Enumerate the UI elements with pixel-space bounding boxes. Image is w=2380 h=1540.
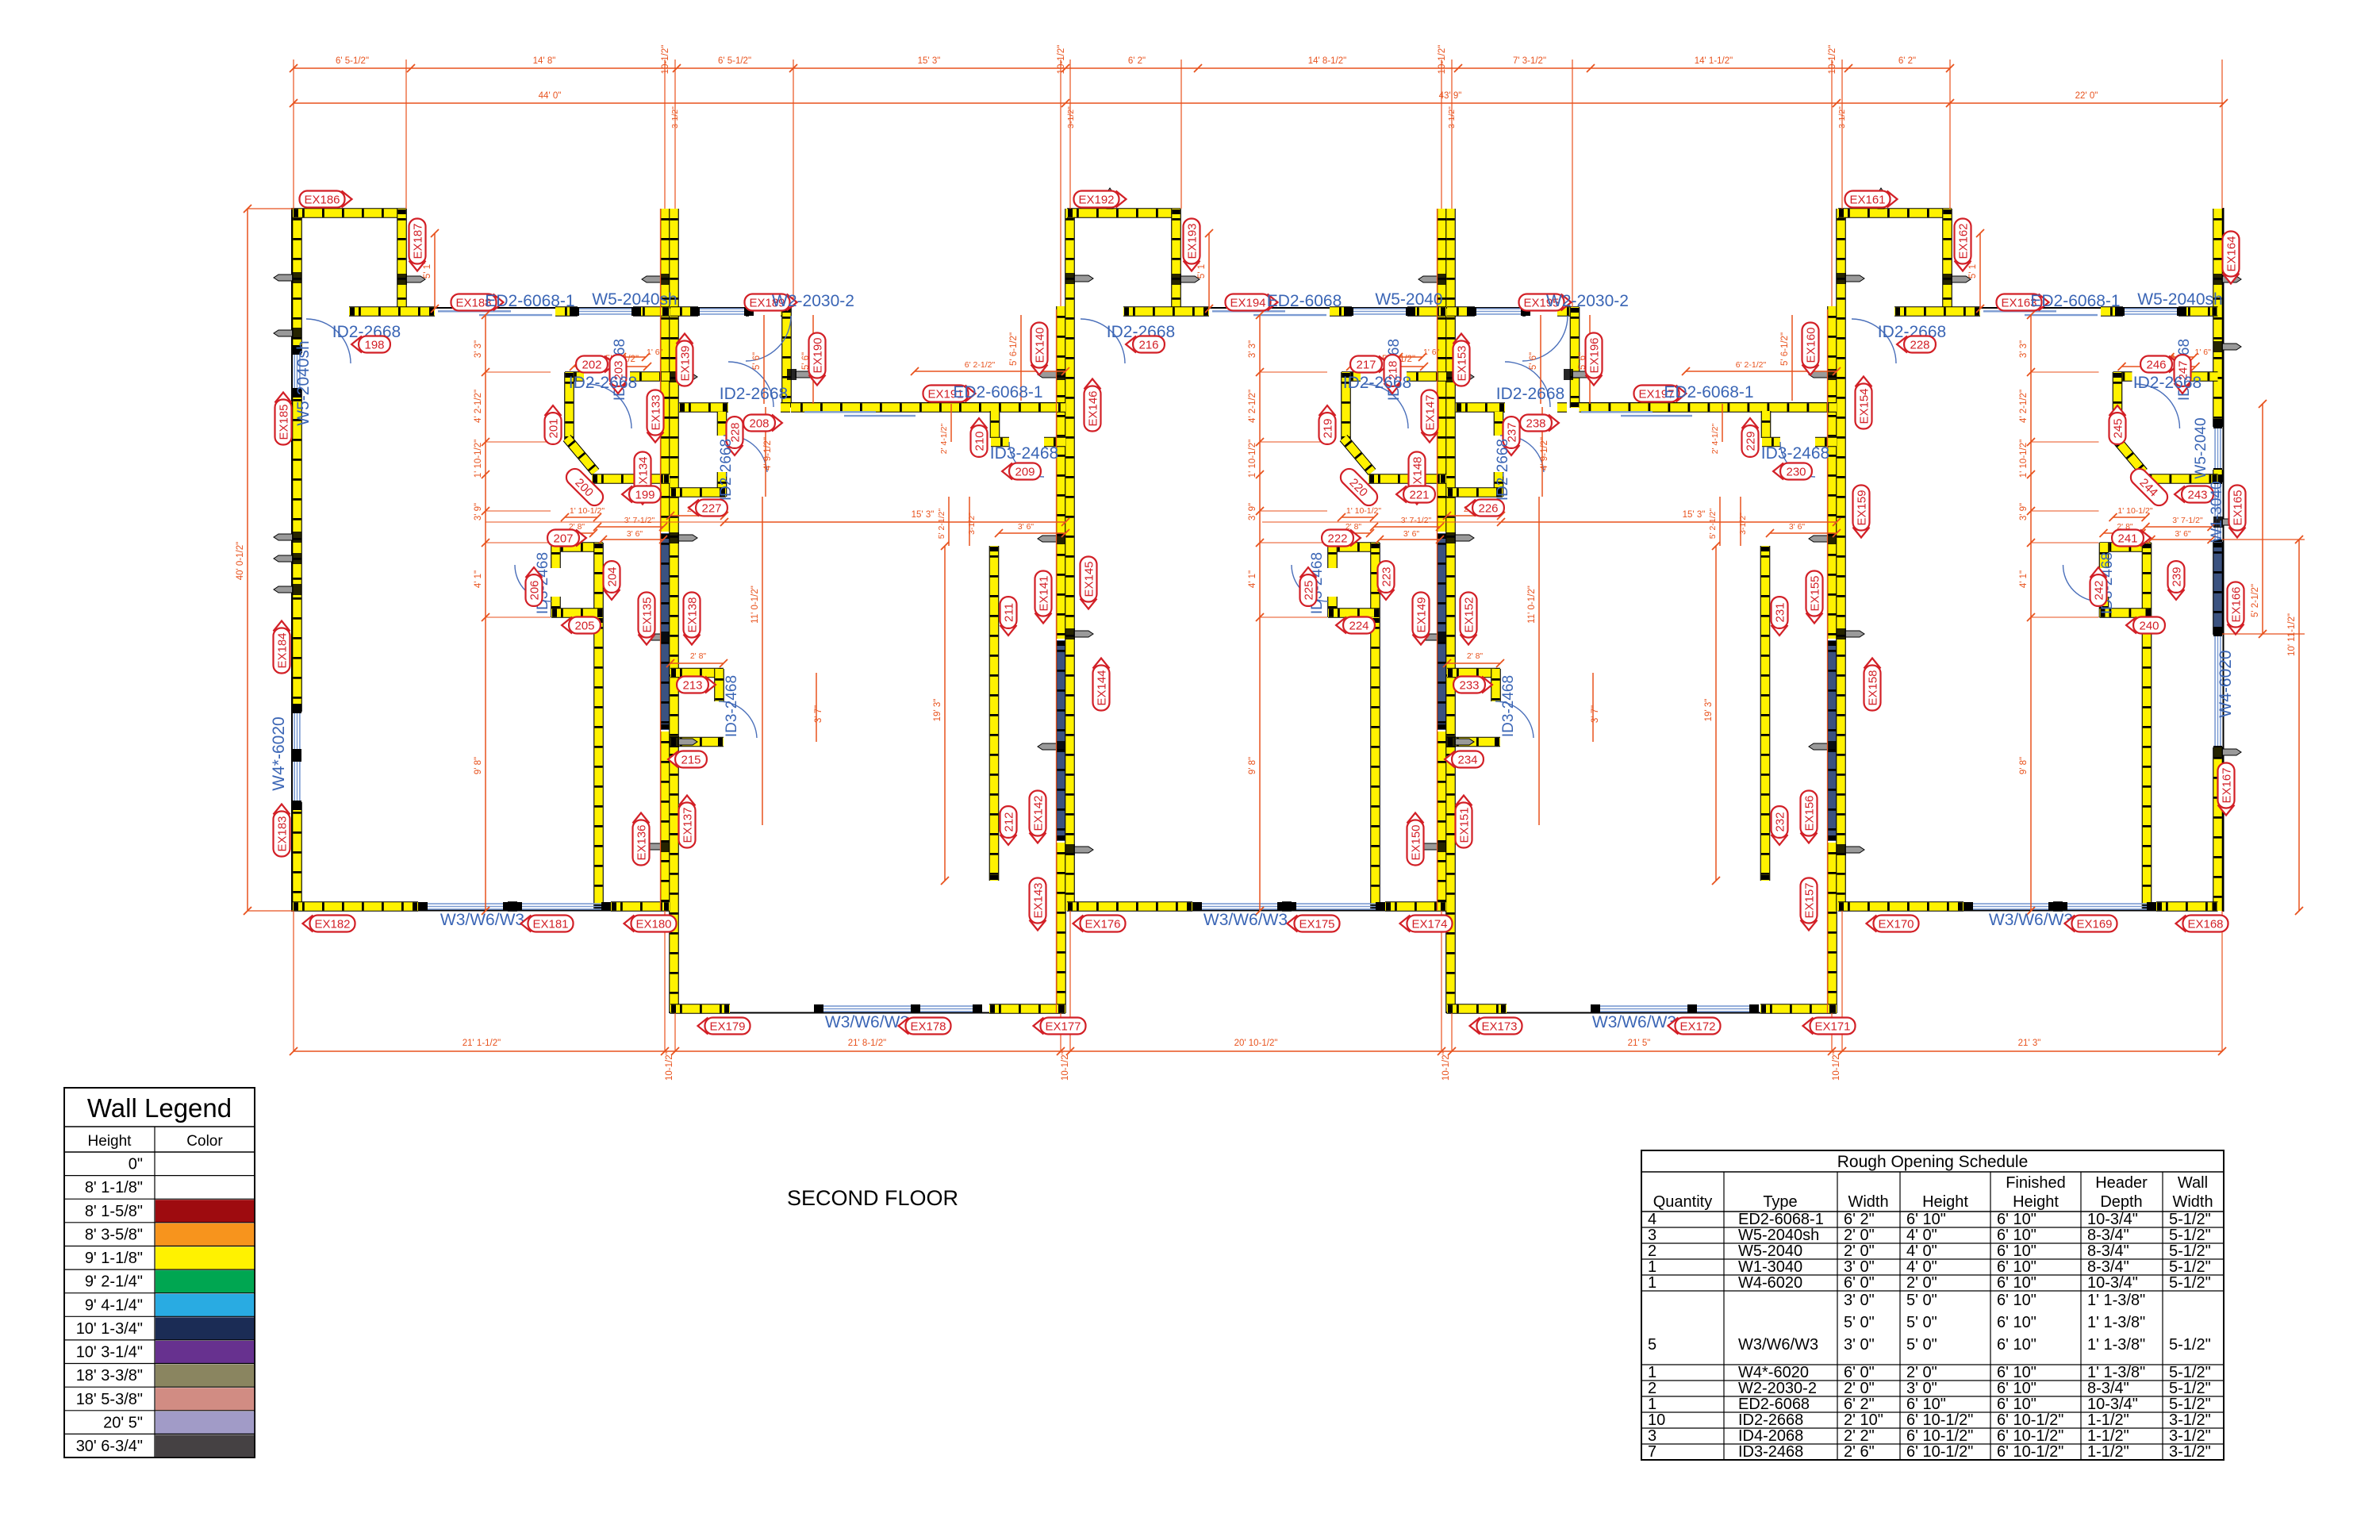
svg-text:EX160: EX160 bbox=[1805, 327, 1818, 363]
svg-text:Width: Width bbox=[2172, 1193, 2213, 1211]
bottom wall bbox=[293, 910, 670, 912]
svg-text:241: 241 bbox=[2117, 532, 2137, 546]
callouts strip3 bbox=[1074, 191, 1127, 208]
svg-text:198: 198 bbox=[364, 339, 384, 352]
svg-text:3' 6": 3' 6" bbox=[2175, 529, 2191, 539]
svg-text:9' 8": 9' 8" bbox=[1248, 757, 1257, 774]
svg-text:EX162: EX162 bbox=[1957, 223, 1971, 259]
svg-text:1' 10-1/2": 1' 10-1/2" bbox=[474, 440, 483, 478]
svg-text:1' 1-3/8": 1' 1-3/8" bbox=[2087, 1292, 2145, 1309]
svg-text:3-1/2": 3-1/2" bbox=[2169, 1443, 2211, 1461]
svg-text:6' 10": 6' 10" bbox=[1997, 1396, 2036, 1413]
svg-text:6' 10": 6' 10" bbox=[1997, 1227, 2036, 1244]
svg-text:10-1/2": 10-1/2" bbox=[1832, 1051, 1841, 1081]
svg-text:W4-6020: W4-6020 bbox=[1738, 1274, 1802, 1292]
Rough Opening Schedule table bbox=[1641, 1150, 2224, 1460]
svg-text:EX182: EX182 bbox=[314, 918, 350, 931]
svg-text:234: 234 bbox=[1457, 754, 1477, 767]
svg-text:243: 243 bbox=[2187, 489, 2207, 502]
svg-text:4' 1": 4' 1" bbox=[474, 570, 483, 588]
closet bbox=[1328, 542, 1380, 552]
svg-text:8' 3-5/8": 8' 3-5/8" bbox=[85, 1227, 143, 1244]
bottom callouts bbox=[303, 916, 355, 932]
svg-text:233: 233 bbox=[1459, 679, 1479, 693]
svg-text:EX187: EX187 bbox=[412, 223, 425, 259]
svg-text:EX155: EX155 bbox=[1809, 575, 1822, 611]
svg-text:246: 246 bbox=[2146, 359, 2166, 372]
svg-text:EX157: EX157 bbox=[1803, 882, 1817, 918]
svg-text:3-1/2": 3-1/2" bbox=[1738, 513, 1748, 535]
svg-text:Height: Height bbox=[2013, 1193, 2059, 1211]
svg-text:5' 0": 5' 0" bbox=[1906, 1314, 1937, 1331]
svg-text:1' 1-3/8": 1' 1-3/8" bbox=[2087, 1364, 2145, 1381]
svg-text:20' 5": 20' 5" bbox=[103, 1414, 143, 1431]
svg-text:40' 0-1/2": 40' 0-1/2" bbox=[236, 542, 245, 580]
svg-text:4' 2-1/2": 4' 2-1/2" bbox=[2019, 390, 2029, 423]
bathroom B bbox=[717, 412, 727, 436]
svg-text:238: 238 bbox=[1526, 417, 1545, 431]
svg-text:2' 8": 2' 8" bbox=[690, 651, 707, 661]
svg-text:5-1/2": 5-1/2" bbox=[2169, 1364, 2211, 1381]
bottom wall bbox=[1067, 910, 1446, 912]
callouts strip2 bbox=[677, 334, 693, 386]
svg-text:ID2-2668: ID2-2668 bbox=[2133, 374, 2201, 392]
svg-text:EX190: EX190 bbox=[812, 337, 825, 373]
svg-text:Wall Legend: Wall Legend bbox=[87, 1093, 232, 1123]
svg-text:226: 226 bbox=[1478, 502, 1498, 516]
svg-text:217: 217 bbox=[1356, 359, 1376, 372]
svg-text:3' 0": 3' 0" bbox=[1844, 1336, 1875, 1354]
svg-text:5-1/2": 5-1/2" bbox=[2169, 1396, 2211, 1413]
svg-text:ID2-2668: ID2-2668 bbox=[1495, 439, 1511, 501]
svg-text:6' 10": 6' 10" bbox=[1997, 1336, 2036, 1354]
svg-text:6' 10": 6' 10" bbox=[1997, 1314, 2036, 1331]
svg-text:21' 5": 21' 5" bbox=[1628, 1039, 1651, 1048]
svg-text:EX158: EX158 bbox=[1867, 670, 1880, 705]
svg-text:ID3-2468: ID3-2468 bbox=[1738, 1443, 1803, 1461]
left dimension bbox=[247, 209, 248, 911]
svg-text:6' 2": 6' 2" bbox=[1844, 1211, 1875, 1228]
svg-text:229: 229 bbox=[1745, 431, 1758, 451]
svg-text:3' 0": 3' 0" bbox=[1844, 1258, 1875, 1276]
right outer wall bbox=[2213, 209, 2223, 427]
svg-text:2' 0": 2' 0" bbox=[1906, 1364, 1937, 1381]
svg-text:ID3-2468: ID3-2468 bbox=[1500, 675, 1517, 737]
svg-text:6' 10-1/2": 6' 10-1/2" bbox=[1997, 1411, 2063, 1429]
svg-text:6' 10-1/2": 6' 10-1/2" bbox=[1906, 1443, 1973, 1461]
svg-text:219: 219 bbox=[1322, 418, 1335, 438]
svg-text:9' 8": 9' 8" bbox=[474, 757, 483, 774]
svg-text:Wall: Wall bbox=[2178, 1174, 2208, 1192]
small room bbox=[670, 668, 724, 678]
svg-text:2' 6": 2' 6" bbox=[1844, 1443, 1875, 1461]
svg-text:212: 212 bbox=[1003, 812, 1016, 831]
svg-text:8' 1-1/8": 8' 1-1/8" bbox=[85, 1179, 143, 1196]
svg-text:5-1/2": 5-1/2" bbox=[2169, 1336, 2211, 1354]
svg-text:EX169: EX169 bbox=[2076, 918, 2112, 931]
svg-text:21' 8-1/2": 21' 8-1/2" bbox=[848, 1039, 886, 1048]
svg-text:3' 0": 3' 0" bbox=[1844, 1292, 1875, 1309]
svg-text:204: 204 bbox=[606, 566, 620, 586]
svg-text:EX144: EX144 bbox=[1096, 670, 1109, 705]
svg-text:Height: Height bbox=[88, 1133, 132, 1150]
svg-text:EX147: EX147 bbox=[1424, 394, 1438, 430]
svg-text:6' 10-1/2": 6' 10-1/2" bbox=[1997, 1443, 2063, 1461]
party wall 4 bbox=[1827, 306, 1837, 639]
svg-text:221: 221 bbox=[1409, 489, 1429, 502]
long wall bbox=[593, 617, 604, 911]
svg-text:8-3/4": 8-3/4" bbox=[2087, 1227, 2129, 1244]
svg-text:8' 1-5/8": 8' 1-5/8" bbox=[85, 1203, 143, 1220]
svg-text:1' 6": 1' 6" bbox=[1423, 348, 1440, 357]
svg-text:6' 5-1/2": 6' 5-1/2" bbox=[718, 56, 751, 66]
svg-text:10-1/2": 10-1/2" bbox=[1438, 45, 1447, 75]
svg-text:W5-2040sh: W5-2040sh bbox=[592, 290, 677, 309]
svg-text:5-1/2": 5-1/2" bbox=[2169, 1258, 2211, 1276]
bathroom bbox=[1342, 371, 1361, 382]
svg-text:1: 1 bbox=[1648, 1396, 1656, 1413]
svg-text:EX173: EX173 bbox=[1481, 1020, 1517, 1034]
svg-text:210: 210 bbox=[973, 431, 987, 451]
svg-text:ED2-6068-1: ED2-6068-1 bbox=[1738, 1211, 1824, 1228]
svg-text:EX193: EX193 bbox=[1186, 223, 1200, 259]
svg-text:4' 0": 4' 0" bbox=[1906, 1227, 1937, 1244]
svg-text:2' 0": 2' 0" bbox=[1906, 1274, 1937, 1292]
svg-text:5' 6-1/2": 5' 6-1/2" bbox=[1009, 332, 1019, 366]
svg-text:11' 0-1/2": 11' 0-1/2" bbox=[750, 586, 760, 624]
svg-text:EX133: EX133 bbox=[650, 394, 663, 430]
svg-text:EX153: EX153 bbox=[1456, 345, 1469, 381]
svg-text:3' 6": 3' 6" bbox=[1789, 522, 1806, 532]
svg-text:1: 1 bbox=[1648, 1258, 1656, 1276]
outer building outline lines bbox=[291, 208, 293, 912]
long wall B bbox=[989, 546, 1000, 881]
svg-text:EX192: EX192 bbox=[1078, 194, 1114, 207]
svg-text:4' 1": 4' 1" bbox=[1248, 570, 1257, 588]
svg-text:ID3-2468: ID3-2468 bbox=[1761, 444, 1829, 463]
svg-text:3' 6": 3' 6" bbox=[1018, 522, 1035, 532]
svg-text:2' 10": 2' 10" bbox=[1844, 1411, 1883, 1429]
svg-text:EX166: EX166 bbox=[2230, 586, 2244, 622]
closet bbox=[551, 542, 603, 552]
svg-text:7' 3-1/2": 7' 3-1/2" bbox=[1513, 56, 1546, 66]
svg-text:6' 10": 6' 10" bbox=[1997, 1274, 2036, 1292]
svg-text:15' 3": 15' 3" bbox=[1683, 510, 1706, 520]
svg-text:18' 5-3/8": 18' 5-3/8" bbox=[76, 1391, 143, 1408]
svg-text:EX137: EX137 bbox=[681, 807, 695, 843]
svg-text:43' 9": 43' 9" bbox=[1439, 91, 1462, 101]
svg-text:22' 0": 22' 0" bbox=[2075, 91, 2098, 101]
svg-text:EX146: EX146 bbox=[1087, 390, 1100, 426]
svg-text:EX172: EX172 bbox=[1679, 1020, 1715, 1034]
svg-text:EX186: EX186 bbox=[304, 194, 340, 207]
svg-text:1-1/2": 1-1/2" bbox=[2087, 1443, 2129, 1461]
svg-text:EX154: EX154 bbox=[1858, 388, 1871, 424]
svg-text:211: 211 bbox=[1003, 603, 1016, 622]
svg-text:W5-2040: W5-2040 bbox=[1375, 290, 1442, 309]
svg-text:1' 10-1/2": 1' 10-1/2" bbox=[570, 506, 605, 516]
callouts strip4 bbox=[1453, 334, 1470, 386]
svg-text:EX168: EX168 bbox=[2187, 918, 2223, 931]
svg-text:10-1/2": 10-1/2" bbox=[1828, 45, 1837, 75]
bathroom bbox=[2113, 371, 2132, 382]
svg-text:10' 1-3/4": 10' 1-3/4" bbox=[76, 1320, 143, 1338]
svg-text:EX175: EX175 bbox=[1299, 918, 1334, 931]
svg-text:EX196: EX196 bbox=[1588, 337, 1602, 373]
top wall B bbox=[1446, 307, 1580, 309]
svg-text:10-1/2": 10-1/2" bbox=[665, 1051, 674, 1081]
svg-text:10-3/4": 10-3/4" bbox=[2087, 1274, 2138, 1292]
svg-text:6' 10": 6' 10" bbox=[1997, 1258, 2036, 1276]
small room bbox=[1447, 668, 1500, 678]
svg-text:EX142: EX142 bbox=[1032, 795, 1046, 831]
svg-text:1' 10-1/2": 1' 10-1/2" bbox=[1248, 440, 1257, 478]
header wall bbox=[1580, 402, 1837, 404]
svg-text:3' 9": 3' 9" bbox=[474, 503, 483, 520]
svg-text:EX151: EX151 bbox=[1458, 807, 1472, 843]
svg-text:ED2-6068-1: ED2-6068-1 bbox=[1664, 383, 1753, 401]
svg-text:EX150: EX150 bbox=[1410, 824, 1423, 860]
svg-text:W2-2030-2: W2-2030-2 bbox=[772, 292, 854, 310]
svg-text:EX161: EX161 bbox=[1849, 194, 1885, 207]
svg-text:ID4-2068: ID4-2068 bbox=[1738, 1427, 1803, 1445]
svg-text:4' 9-1/2": 4' 9-1/2" bbox=[763, 437, 773, 470]
svg-text:W5-2040sh: W5-2040sh bbox=[1738, 1227, 1819, 1244]
svg-text:EX194: EX194 bbox=[1230, 297, 1265, 310]
svg-text:W3/W6/W3: W3/W6/W3 bbox=[1203, 911, 1288, 929]
svg-text:10-1/2": 10-1/2" bbox=[1441, 1051, 1451, 1081]
header wall bbox=[791, 402, 1065, 404]
svg-text:6' 2-1/2": 6' 2-1/2" bbox=[1736, 360, 1767, 370]
right dims bbox=[2262, 404, 2263, 634]
svg-text:18' 3-3/8": 18' 3-3/8" bbox=[76, 1367, 143, 1384]
svg-text:3' 7-1/2": 3' 7-1/2" bbox=[2172, 516, 2203, 525]
svg-text:ED2-6068-1: ED2-6068-1 bbox=[485, 292, 574, 310]
svg-text:EX184: EX184 bbox=[276, 632, 290, 668]
svg-text:6' 2": 6' 2" bbox=[1898, 56, 1916, 66]
svg-text:EX139: EX139 bbox=[679, 345, 693, 381]
svg-text:3' 3": 3' 3" bbox=[474, 340, 483, 358]
svg-text:21' 3": 21' 3" bbox=[2018, 1039, 2041, 1048]
long wall B bbox=[1760, 546, 1771, 881]
svg-text:19' 3": 19' 3" bbox=[1704, 699, 1714, 722]
svg-text:1' 1-3/8": 1' 1-3/8" bbox=[2087, 1314, 2145, 1331]
svg-text:EX143: EX143 bbox=[1032, 882, 1046, 918]
svg-text:2' 0": 2' 0" bbox=[1844, 1242, 1875, 1260]
svg-text:ED2-6068-1: ED2-6068-1 bbox=[2030, 292, 2120, 310]
svg-text:5' 2-1/2": 5' 2-1/2" bbox=[937, 509, 946, 540]
svg-text:3' 3": 3' 3" bbox=[2019, 340, 2029, 358]
svg-text:W5-2040sh: W5-2040sh bbox=[2137, 290, 2222, 309]
svg-text:1' 10-1/2": 1' 10-1/2" bbox=[2019, 440, 2029, 478]
svg-text:5-1/2": 5-1/2" bbox=[2169, 1274, 2211, 1292]
svg-text:3: 3 bbox=[1648, 1227, 1656, 1244]
svg-text:10-1/2": 10-1/2" bbox=[661, 45, 670, 75]
svg-text:EX171: EX171 bbox=[1814, 1020, 1850, 1034]
svg-text:1' 10-1/2": 1' 10-1/2" bbox=[1346, 506, 1382, 516]
svg-text:3' 9": 3' 9" bbox=[2019, 503, 2029, 520]
svg-text:W3/W6/W3: W3/W6/W3 bbox=[440, 911, 524, 929]
svg-text:30' 6-3/4": 30' 6-3/4" bbox=[76, 1438, 143, 1455]
svg-text:10' 11-1/2": 10' 11-1/2" bbox=[2287, 613, 2297, 656]
svg-text:2: 2 bbox=[1648, 1242, 1656, 1260]
svg-text:1-1/2": 1-1/2" bbox=[2087, 1411, 2129, 1429]
svg-text:4' 2-1/2": 4' 2-1/2" bbox=[474, 390, 483, 423]
svg-text:10-1/2": 10-1/2" bbox=[1057, 45, 1066, 75]
svg-text:EX156: EX156 bbox=[1803, 795, 1817, 831]
svg-text:EX145: EX145 bbox=[1083, 561, 1096, 597]
svg-text:3' 0": 3' 0" bbox=[1906, 1380, 1937, 1397]
closet bbox=[2100, 542, 2152, 552]
svg-text:ID2-2668: ID2-2668 bbox=[1343, 374, 1411, 392]
svg-text:3' 7": 3' 7" bbox=[1591, 705, 1600, 723]
svg-text:Height: Height bbox=[1922, 1193, 1968, 1211]
top dimension lines bbox=[294, 67, 1950, 69]
svg-text:10-3/4": 10-3/4" bbox=[2087, 1211, 2138, 1228]
svg-text:EX167: EX167 bbox=[2221, 767, 2234, 803]
svg-text:EX159: EX159 bbox=[1856, 490, 1869, 525]
svg-text:4' 0": 4' 0" bbox=[1906, 1242, 1937, 1260]
svg-text:Width: Width bbox=[1848, 1193, 1888, 1211]
svg-text:W5-2040: W5-2040 bbox=[2193, 417, 2209, 478]
svg-text:5' 6": 5' 6" bbox=[752, 352, 762, 370]
svg-text:3' 3": 3' 3" bbox=[1248, 340, 1257, 358]
party wall 3 bbox=[1437, 209, 1447, 532]
svg-text:9' 4-1/4": 9' 4-1/4" bbox=[85, 1296, 143, 1314]
svg-text:5' 2-1/2": 5' 2-1/2" bbox=[2251, 584, 2260, 617]
party wall 2 bbox=[1056, 306, 1066, 639]
svg-text:5-1/2": 5-1/2" bbox=[2169, 1211, 2211, 1228]
svg-text:Header: Header bbox=[2095, 1174, 2148, 1192]
svg-text:225: 225 bbox=[1303, 580, 1316, 600]
svg-text:205: 205 bbox=[574, 620, 594, 633]
party wall 1 bbox=[660, 209, 670, 532]
svg-text:4: 4 bbox=[1648, 1211, 1656, 1228]
top wall B bbox=[670, 307, 791, 309]
svg-text:EX140: EX140 bbox=[1034, 327, 1047, 363]
svg-text:206: 206 bbox=[528, 580, 542, 600]
svg-text:8-3/4": 8-3/4" bbox=[2087, 1258, 2129, 1276]
svg-text:5' 2-1/2": 5' 2-1/2" bbox=[1708, 509, 1718, 540]
svg-text:15' 3": 15' 3" bbox=[912, 510, 935, 520]
svg-text:6' 10": 6' 10" bbox=[1906, 1211, 1946, 1228]
svg-text:6' 10": 6' 10" bbox=[1997, 1242, 2036, 1260]
small top-right room bbox=[990, 411, 1000, 438]
svg-text:215: 215 bbox=[681, 754, 701, 767]
svg-text:232: 232 bbox=[1774, 812, 1787, 831]
top wall bbox=[1894, 307, 2218, 309]
svg-text:6' 10-1/2": 6' 10-1/2" bbox=[1997, 1427, 2063, 1445]
svg-text:1' 10-1/2": 1' 10-1/2" bbox=[2117, 506, 2153, 516]
svg-text:2' 8": 2' 8" bbox=[1467, 651, 1484, 661]
svg-text:4' 0": 4' 0" bbox=[1906, 1258, 1937, 1276]
svg-text:199: 199 bbox=[635, 489, 654, 502]
svg-text:W4*-6020: W4*-6020 bbox=[1738, 1364, 1809, 1381]
svg-text:0": 0" bbox=[129, 1156, 143, 1173]
svg-text:3' 6": 3' 6" bbox=[627, 529, 643, 539]
svg-text:4' 1": 4' 1" bbox=[2019, 570, 2029, 588]
svg-text:ED2-6068: ED2-6068 bbox=[1738, 1396, 1810, 1413]
svg-text:245: 245 bbox=[2112, 418, 2125, 438]
svg-text:Finished: Finished bbox=[2006, 1174, 2066, 1192]
svg-text:EX178: EX178 bbox=[910, 1020, 946, 1034]
svg-text:W3/W6/W3: W3/W6/W3 bbox=[1989, 911, 2073, 929]
svg-text:3' 7": 3' 7" bbox=[814, 705, 823, 723]
svg-text:Depth: Depth bbox=[2100, 1193, 2142, 1211]
svg-text:14' 1-1/2": 14' 1-1/2" bbox=[1695, 56, 1733, 66]
svg-text:6' 0": 6' 0" bbox=[1844, 1364, 1875, 1381]
svg-text:EX176: EX176 bbox=[1084, 918, 1120, 931]
svg-text:EX152: EX152 bbox=[1463, 597, 1476, 632]
svg-text:2' 0": 2' 0" bbox=[1844, 1380, 1875, 1397]
svg-text:230: 230 bbox=[1786, 466, 1806, 479]
svg-text:W2-2030-2: W2-2030-2 bbox=[1738, 1380, 1817, 1397]
svg-text:10-1/2": 10-1/2" bbox=[1061, 1051, 1070, 1081]
svg-text:242: 242 bbox=[2093, 580, 2106, 600]
svg-text:14' 8-1/2": 14' 8-1/2" bbox=[1308, 56, 1346, 66]
svg-text:3' 7-1/2": 3' 7-1/2" bbox=[1401, 516, 1432, 525]
svg-text:5-1/2": 5-1/2" bbox=[2169, 1227, 2211, 1244]
svg-text:5' 6": 5' 6" bbox=[1529, 352, 1538, 370]
svg-text:1-1/2": 1-1/2" bbox=[2087, 1427, 2129, 1445]
svg-text:6' 0": 6' 0" bbox=[1844, 1274, 1875, 1292]
svg-text:10-3/4": 10-3/4" bbox=[2087, 1396, 2138, 1413]
party wall extension lines bbox=[660, 209, 662, 911]
callouts strip1 bbox=[300, 191, 352, 208]
svg-text:EX180: EX180 bbox=[635, 918, 671, 931]
svg-text:3' 6": 3' 6" bbox=[1403, 529, 1420, 539]
bottom wall bbox=[1838, 910, 2218, 912]
svg-text:11' 0-1/2": 11' 0-1/2" bbox=[1527, 586, 1537, 624]
svg-text:15' 3": 15' 3" bbox=[918, 56, 941, 66]
svg-text:ID2-2668: ID2-2668 bbox=[1496, 385, 1564, 403]
svg-text:9' 8": 9' 8" bbox=[2019, 757, 2029, 774]
top room walls bbox=[1067, 208, 1180, 218]
svg-text:6' 2": 6' 2" bbox=[1844, 1396, 1875, 1413]
svg-text:1: 1 bbox=[1648, 1274, 1656, 1292]
svg-text:1' 6": 1' 6" bbox=[647, 348, 663, 357]
callouts strip5 bbox=[1845, 191, 1898, 208]
svg-text:6' 10": 6' 10" bbox=[1997, 1292, 2036, 1309]
svg-text:W1-3040: W1-3040 bbox=[2209, 481, 2225, 542]
svg-text:5' 0": 5' 0" bbox=[1844, 1314, 1875, 1331]
svg-text:6' 10-1/2": 6' 10-1/2" bbox=[1906, 1411, 1973, 1429]
svg-text:3' 7-1/2": 3' 7-1/2" bbox=[624, 516, 655, 525]
svg-text:21' 1-1/2": 21' 1-1/2" bbox=[463, 1039, 501, 1048]
svg-text:240: 240 bbox=[2139, 620, 2159, 633]
svg-text:44' 0": 44' 0" bbox=[539, 91, 562, 101]
svg-text:227: 227 bbox=[701, 502, 721, 516]
svg-text:231: 231 bbox=[1774, 602, 1787, 622]
svg-text:W2-2030-2: W2-2030-2 bbox=[1546, 292, 1629, 310]
svg-text:224: 224 bbox=[1349, 620, 1368, 633]
svg-text:EX141: EX141 bbox=[1038, 575, 1051, 611]
svg-text:1' 6": 1' 6" bbox=[2195, 348, 2212, 357]
svg-text:EX177: EX177 bbox=[1045, 1020, 1081, 1034]
svg-text:207: 207 bbox=[553, 532, 573, 546]
bottom wall B bbox=[670, 1012, 1065, 1014]
svg-text:6' 10": 6' 10" bbox=[1997, 1211, 2036, 1228]
svg-text:6' 10": 6' 10" bbox=[1906, 1396, 1946, 1413]
svg-text:1' 1-3/8": 1' 1-3/8" bbox=[2087, 1336, 2145, 1354]
svg-text:W4-6020: W4-6020 bbox=[2217, 650, 2235, 717]
svg-text:213: 213 bbox=[682, 679, 702, 693]
svg-text:ID2-2668: ID2-2668 bbox=[1738, 1411, 1803, 1429]
top wall bbox=[1123, 307, 1446, 309]
svg-text:6' 2-1/2": 6' 2-1/2" bbox=[965, 360, 996, 370]
svg-text:216: 216 bbox=[1138, 339, 1158, 352]
svg-text:6' 2": 6' 2" bbox=[1128, 56, 1146, 66]
